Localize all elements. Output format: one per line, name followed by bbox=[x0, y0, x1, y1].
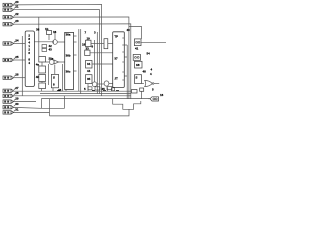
svg-text:4: 4 bbox=[150, 72, 152, 76]
svg-text:30: 30 bbox=[15, 102, 19, 106]
svg-text:16: 16 bbox=[53, 30, 57, 34]
svg-text:38: 38 bbox=[36, 28, 40, 32]
svg-text:45: 45 bbox=[102, 87, 106, 91]
svg-text:TP: TP bbox=[114, 35, 118, 39]
svg-text:4: 4 bbox=[28, 61, 30, 65]
svg-text:41: 41 bbox=[135, 47, 139, 51]
svg-text:21: 21 bbox=[15, 5, 19, 9]
svg-text:16: 16 bbox=[160, 93, 164, 97]
svg-text:20a: 20a bbox=[49, 57, 54, 61]
svg-text:31: 31 bbox=[15, 107, 19, 111]
svg-text:4a: 4a bbox=[36, 63, 40, 67]
svg-text:36c: 36c bbox=[66, 70, 71, 74]
svg-text:37: 37 bbox=[114, 57, 118, 61]
svg-text:28: 28 bbox=[15, 91, 19, 95]
svg-text:26: 26 bbox=[15, 73, 19, 77]
svg-text:4: 4 bbox=[151, 68, 153, 72]
svg-text:24: 24 bbox=[15, 39, 19, 43]
svg-text:48: 48 bbox=[143, 70, 147, 74]
svg-text:8: 8 bbox=[53, 83, 55, 87]
svg-text:19: 19 bbox=[87, 37, 91, 41]
svg-text:36b: 36b bbox=[66, 54, 71, 58]
svg-text:4b: 4b bbox=[36, 75, 40, 79]
svg-text:S8: S8 bbox=[136, 63, 140, 67]
svg-text:JT: JT bbox=[114, 77, 118, 81]
svg-text:54: 54 bbox=[147, 52, 151, 56]
svg-text:5: 5 bbox=[84, 87, 86, 91]
svg-text:23: 23 bbox=[15, 19, 19, 23]
svg-text:43: 43 bbox=[49, 48, 53, 52]
svg-text:1b: 1b bbox=[45, 27, 49, 31]
svg-text:5: 5 bbox=[152, 88, 154, 92]
svg-text:34: 34 bbox=[87, 62, 91, 66]
svg-text:33: 33 bbox=[86, 47, 90, 51]
svg-text:27: 27 bbox=[15, 86, 19, 90]
svg-text:S: S bbox=[136, 76, 138, 80]
svg-text:35: 35 bbox=[87, 77, 91, 81]
svg-text:25: 25 bbox=[15, 55, 19, 59]
svg-text:3: 3 bbox=[94, 31, 96, 35]
svg-text:7: 7 bbox=[85, 31, 87, 35]
svg-text:44: 44 bbox=[87, 69, 91, 73]
svg-text:46: 46 bbox=[58, 88, 62, 92]
svg-text:6: 6 bbox=[28, 51, 30, 55]
svg-text:40: 40 bbox=[127, 28, 131, 32]
svg-text:9: 9 bbox=[92, 45, 94, 49]
svg-text:36a: 36a bbox=[66, 33, 71, 37]
svg-text:20: 20 bbox=[15, 0, 19, 4]
svg-text:S: S bbox=[53, 76, 55, 80]
svg-text:29: 29 bbox=[15, 97, 19, 101]
svg-text:22: 22 bbox=[15, 12, 19, 16]
